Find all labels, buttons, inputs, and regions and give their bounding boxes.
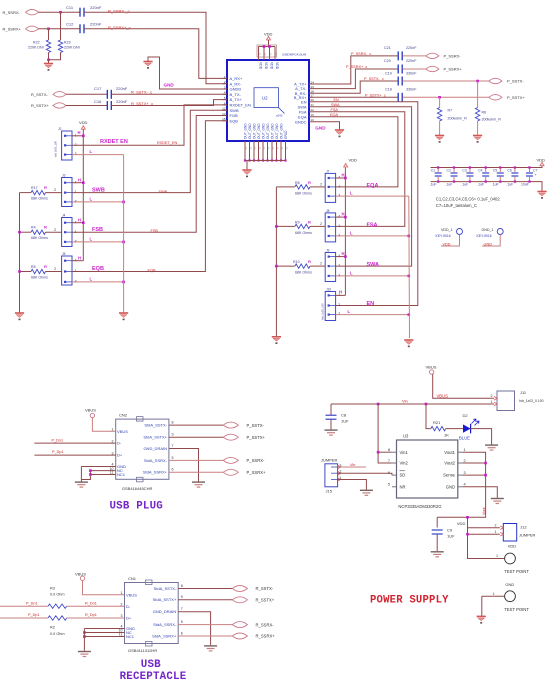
svg-text:C4: C4 (478, 169, 482, 173)
ground CN2 shell (75, 482, 88, 487)
svg-text:J9: J9 (326, 248, 330, 252)
J15 pin 1 (340, 476, 342, 480)
J2 pin 1 (64, 135, 66, 137)
svg-text:OUT_GND: OUT_GND (279, 123, 283, 139)
svg-text:H: H (339, 289, 342, 294)
wire J15 pin3 Vin stub (338, 466, 366, 468)
wire CN2 SSRX+ to port (169, 471, 224, 473)
svg-text:J7: J7 (326, 169, 330, 173)
net label SWB (magenta) (92, 187, 105, 193)
ground GND test point (477, 616, 486, 623)
node R6 tap (476, 80, 479, 83)
net label R_SSTX-_c (131, 90, 152, 95)
U2 pin 22 FSA (299, 109, 307, 114)
svg-text:TEST POINT: TEST POINT (504, 569, 529, 574)
wire J8 pin3 to right L rail (336, 235, 409, 237)
U2 part number label (282, 53, 307, 57)
svg-text:OUT_GND: OUT_GND (243, 123, 247, 139)
svg-text:220nF: 220nF (406, 59, 417, 63)
svg-text:VDD: VDD (443, 242, 451, 246)
J4 pin 4 (64, 222, 66, 224)
svg-text:22: 22 (276, 52, 278, 55)
CN2 pin 9 StdA_SSTX+ (143, 435, 167, 440)
svg-text:VDD: VDD (259, 62, 263, 70)
svg-text:RXDET_EN: RXDET_EN (157, 141, 178, 145)
port P_SSTX- (489, 78, 502, 83)
wire left L rail (123, 155, 125, 313)
connector J9 header body (325, 253, 335, 282)
connector J2 header body (62, 131, 72, 160)
wire VDD to J12 pins (468, 517, 505, 558)
op-amp U2 redriver IC body (227, 60, 309, 141)
svg-text:VDD: VDD (275, 62, 279, 70)
regulator U3 body (397, 440, 458, 498)
svg-text:U3: U3 (403, 434, 409, 439)
connector J15 jumper (321, 458, 338, 463)
net labels EN SWA FSA EQA at chip (334, 98, 340, 102)
svg-text:7: 7 (172, 444, 174, 448)
svg-text:GND: GND (164, 82, 175, 87)
svg-text:H: H (342, 173, 345, 178)
U2 pin 21 SWA (298, 104, 307, 109)
U2 pin 24 A_TX+ (294, 82, 307, 87)
connector J8 header body (325, 213, 335, 242)
wire J9 pin4 to VDD rail (336, 256, 346, 258)
svg-text:7: 7 (388, 459, 390, 463)
resistor R23 (60, 12, 62, 40)
net label EQB (magenta) (92, 266, 104, 272)
svg-text:J15: J15 (326, 489, 333, 494)
wire Vin to U3 Vin1/Vin2 (378, 404, 392, 463)
CN2 pin 1 VBUS (112, 428, 114, 432)
svg-text:R5: R5 (31, 265, 36, 269)
wire right L rail (408, 196, 411, 338)
wire R_SSTX+ to C16 (66, 105, 108, 107)
wire VBUS to CN1 pin1 (83, 581, 125, 595)
svg-text:P_SSTX+: P_SSTX+ (507, 95, 525, 100)
U3 pin 1 Vout1 (464, 448, 466, 452)
port P_SSRX+ (426, 66, 439, 71)
ground U3 (491, 499, 504, 504)
test point GND (505, 582, 514, 587)
U2 pin 3 GNDD (230, 87, 242, 92)
ground GNDD net (143, 62, 152, 69)
port P_SSTX+ plug (223, 434, 238, 440)
capacitor C18 (398, 93, 402, 102)
net label EN (magenta) (367, 301, 375, 307)
svg-text:GND_1: GND_1 (482, 228, 494, 232)
J3 pin 1 (64, 192, 66, 194)
svg-text:21: 21 (270, 52, 272, 55)
wire J2 pin3 to L rail (72, 154, 124, 156)
svg-text:StdA_SSRX+: StdA_SSRX+ (143, 470, 168, 475)
port R_SSRX+ (input) (3, 27, 22, 32)
J7 pin 4 (328, 177, 330, 179)
svg-text:USB PLUG: USB PLUG (110, 501, 163, 513)
svg-text:C18: C18 (385, 88, 392, 92)
svg-text:L: L (350, 271, 353, 276)
wire CN2 SSRX- to port (169, 459, 224, 461)
net label GND at GNDC (315, 125, 326, 130)
svg-text:USB3MPC410UM: USB3MPC410UM (282, 53, 307, 57)
svg-text:P_SSRX-: P_SSRX- (444, 53, 462, 58)
resistor R10 (320, 262, 322, 266)
ground at GNDC (335, 130, 344, 137)
CN1 pin 7 GND_DRAIN (153, 609, 177, 614)
svg-text:OUT_GND: OUT_GND (257, 123, 261, 139)
wire J5 pin4 to VDD rail (72, 260, 83, 262)
svg-text:L: L (350, 231, 353, 236)
svg-text:OUT_GND: OUT_GND (275, 123, 279, 139)
svg-text:GND_DRAIN: GND_DRAIN (153, 609, 177, 614)
svg-text:220nF: 220nF (90, 22, 102, 27)
svg-text:StdA_SSRX-: StdA_SSRX- (153, 622, 177, 627)
svg-text:R_SSTX-: R_SSTX- (256, 586, 274, 591)
CN1 pin 9 StdA_SSTX+ (153, 597, 177, 602)
capacitor C5 (499, 168, 501, 173)
U2 pin 18 B_RX- (295, 91, 307, 96)
svg-text:Vout1: Vout1 (444, 450, 455, 455)
CN1 pin 3 D+ (121, 614, 123, 618)
port P_SSTX- plug (223, 422, 238, 428)
svg-text:1: 1 (112, 428, 114, 432)
ground J15 (360, 490, 373, 495)
svg-text:2: 2 (491, 394, 493, 398)
power VBUS pin plug (85, 407, 96, 412)
svg-text:EPAD: EPAD (284, 130, 288, 139)
svg-text:GND: GND (446, 484, 455, 489)
wire Vout net (437, 452, 485, 517)
wire CN1 GND/NC to ground (84, 628, 124, 630)
svg-text:4: 4 (464, 483, 466, 487)
svg-text:Vin1: Vin1 (400, 450, 409, 455)
net label P_SSRX+_c (346, 65, 367, 69)
wire J9 pin3 to right L rail (336, 275, 409, 277)
wire J3 pin4 to VDD rail (72, 182, 83, 184)
svg-text:VBUS: VBUS (426, 364, 437, 369)
svg-text:6: 6 (172, 468, 174, 472)
wire J15 pin1 to ground (338, 480, 367, 490)
svg-text:R: R (308, 180, 311, 185)
svg-text:J4: J4 (62, 214, 66, 218)
svg-text:R_Dp1: R_Dp1 (85, 613, 97, 617)
connector J7 header body (325, 173, 335, 202)
wire J7 pin4 to VDD rail (336, 177, 346, 179)
svg-text:GSB4111312HR: GSB4111312HR (128, 648, 157, 653)
svg-text:1: 1 (121, 591, 123, 595)
svg-text:1: 1 (338, 185, 340, 189)
svg-text:hdr_1x02_0.100: hdr_1x02_0.100 (519, 399, 544, 403)
CN2 pin 11 NC1 (110, 471, 114, 475)
wire R_SSRX+_c net to chip A_RX+ (84, 29, 227, 79)
CN2 pin 8 StdA_SSTX- (144, 423, 167, 428)
ground cap bank (537, 192, 546, 199)
svg-text:VBUS: VBUS (117, 429, 128, 434)
port P_SSRX+ plug (223, 469, 238, 475)
wire cap bank top rail (431, 166, 543, 168)
port P_SSRX- (426, 53, 439, 58)
svg-text:StdA_SSTX-: StdA_SSTX- (144, 423, 167, 428)
svg-text:26: 26 (250, 146, 252, 149)
label L J7 (350, 191, 353, 196)
wire R_SSRX- to C11 (39, 11, 81, 13)
resistor R22 (48, 29, 50, 40)
svg-text:33: 33 (282, 146, 284, 149)
label H J7 (342, 173, 345, 178)
svg-text:C20: C20 (384, 59, 391, 63)
VDD power symbol above U2 (264, 31, 273, 36)
wire C20 to P_SSRX+ port (403, 68, 426, 70)
svg-text:200kohm_R: 200kohm_R (448, 116, 468, 120)
wire J2 pin1 to VDD rail (72, 135, 83, 137)
wire CN2 GND to ground (81, 466, 115, 468)
svg-text:R4: R4 (31, 226, 36, 230)
wire C18 to P_SSTX+ port (403, 96, 489, 98)
net label EQB (red) (148, 269, 156, 273)
CN1 pin 1 VBUS (121, 591, 123, 595)
net label R_SSRX-_c (108, 9, 130, 14)
svg-text:StdA_SSTX+: StdA_SSTX+ (153, 597, 177, 602)
connector J2 (RXDET_EN select) (58, 127, 62, 131)
wire J10 pin3 to right L rail (336, 314, 409, 316)
connector J4 (FSB select) (62, 214, 66, 218)
svg-text:.1uF: .1uF (446, 182, 453, 186)
svg-text:JUMPER: JUMPER (321, 458, 338, 463)
U3 pin 4 GND (464, 483, 466, 487)
svg-text:1: 1 (491, 400, 493, 404)
svg-text:U2: U2 (262, 96, 268, 101)
net label P_Dp1 plug (52, 450, 64, 454)
svg-text:68K Ohms: 68K Ohms (295, 231, 312, 235)
label L J2 (90, 149, 93, 154)
svg-text:NCP3335ADM330R2G: NCP3335ADM330R2G (398, 504, 441, 509)
J5 pin 1 (64, 270, 66, 272)
CN2 pin 4 GND (112, 463, 114, 467)
svg-text:20: 20 (265, 52, 267, 55)
svg-text:1UF: 1UF (341, 419, 349, 424)
svg-text:VDD: VDD (508, 544, 517, 549)
svg-text:Vout: Vout (482, 506, 486, 515)
CN1 pin 11 NC1 (119, 633, 123, 637)
net label P_SSRX-_c (351, 52, 371, 56)
svg-text:R_SSRX+_c: R_SSRX+_c (108, 25, 131, 30)
svg-text:P_Dp1: P_Dp1 (52, 450, 64, 454)
svg-text:GND_DRAIN: GND_DRAIN (143, 446, 167, 451)
svg-text:5: 5 (388, 483, 390, 487)
svg-text:L: L (90, 277, 93, 282)
svg-text:2: 2 (320, 183, 322, 187)
connector J5 (EQB select) (62, 252, 66, 256)
net label Vin rail (402, 398, 408, 403)
wire VDD rail right jumpers (344, 168, 346, 296)
svg-text:OUT_GND: OUT_GND (248, 123, 252, 139)
svg-text:CN1: CN1 (128, 576, 137, 581)
wire CN1 GND_DRAIN to ground (178, 612, 210, 646)
capacitor C2 (453, 168, 455, 173)
U3 pin 3 Sense (464, 471, 466, 475)
svg-text:USB: USB (141, 659, 161, 671)
CN2 pin 2 D- (112, 439, 114, 443)
svg-text:R7: R7 (448, 109, 453, 113)
svg-text:.1uF: .1uF (477, 182, 484, 186)
capacitor C20 (398, 65, 402, 74)
svg-text:220nF: 220nF (406, 46, 417, 50)
svg-text:GND: GND (484, 242, 493, 246)
connector J7 (EQA select) (326, 169, 330, 173)
svg-text:68K Ohms: 68K Ohms (295, 271, 312, 275)
svg-text:R3: R3 (50, 587, 55, 591)
svg-text:L: L (90, 197, 93, 202)
capacitor C6 (514, 168, 516, 173)
J15 pin 2 (340, 470, 342, 474)
U2 pin 4 B_TX- (230, 92, 242, 97)
svg-text:19: 19 (259, 52, 261, 55)
svg-text:TEST POINT: TEST POINT (504, 607, 529, 612)
svg-text:J10: J10 (326, 287, 331, 291)
svg-text:NC1: NC1 (126, 634, 135, 639)
port R_SSRX+ (232, 633, 247, 639)
connector CN1 USB receptacle body (125, 583, 179, 644)
wire VBUS to CN2 pin1 (92, 418, 115, 432)
svg-text:P_SSRX+: P_SSRX+ (444, 67, 463, 72)
CN1 pin 6 StdA_SSRX+ (152, 633, 177, 638)
ground right L rail (404, 340, 413, 347)
node junction R_SSRX- / R23 (59, 11, 62, 14)
svg-text:P_SSRX-: P_SSRX- (247, 458, 266, 463)
wire P_Dp1 to CN2 D+ (34, 454, 115, 456)
node R7 tap (438, 96, 441, 99)
svg-text:68K Ohms: 68K Ohms (31, 275, 48, 279)
svg-text:C16: C16 (94, 99, 102, 104)
U2 pin 2 A_RX- (230, 81, 242, 86)
svg-text:RXDET EN: RXDET EN (100, 139, 128, 145)
wire J4 pin3 to L rail (72, 241, 124, 243)
svg-text:R_SSTX+: R_SSTX+ (256, 598, 275, 603)
svg-text:VBUS: VBUS (75, 572, 86, 577)
wire J15 pin2 to U3 SD (338, 473, 392, 475)
svg-text:5: 5 (172, 456, 174, 460)
net label R_Dn1 (85, 601, 97, 605)
ground below R7 (435, 136, 444, 143)
connector J4 header body (62, 218, 72, 247)
svg-text:R_SSTX-_c: R_SSTX-_c (131, 90, 152, 95)
svg-text:J3: J3 (62, 174, 66, 178)
net label R_SSRX+_c (108, 25, 131, 30)
capacitor C1 (437, 168, 439, 173)
U2 VDD pins and labels (258, 47, 260, 61)
svg-text:VDD: VDD (79, 120, 88, 125)
resistor R7 (439, 97, 441, 107)
svg-text:C5: C5 (493, 169, 497, 173)
net label FSB (magenta) (92, 227, 103, 233)
svg-text:1K: 1K (444, 433, 449, 438)
svg-text:1: 1 (338, 264, 340, 268)
svg-text:StdA_SSTX+: StdA_SSTX+ (143, 435, 167, 440)
J8 pin 4 (328, 216, 330, 218)
svg-text:EN: EN (367, 301, 375, 307)
svg-text:OUT_GND: OUT_GND (270, 123, 274, 139)
svg-text:8: 8 (172, 421, 174, 425)
node VDD junction (466, 516, 469, 519)
U2 pin 23 A_TX- (295, 86, 307, 91)
port R_SSTX- (input) (31, 92, 49, 97)
svg-text:NC1: NC1 (117, 472, 126, 477)
svg-text:C3: C3 (462, 169, 466, 173)
svg-text:R23: R23 (64, 41, 71, 45)
wire R_SSTX- to C17 (66, 93, 108, 95)
wire SWA chip to J9 (314, 107, 412, 266)
svg-text:R_Dn1: R_Dn1 (85, 601, 97, 605)
svg-text:R: R (44, 264, 47, 269)
resistor R6 (477, 81, 479, 108)
svg-text:C7=10uF_tantalum_C: C7=10uF_tantalum_C (436, 203, 477, 208)
svg-text:.1uF: .1uF (461, 182, 468, 186)
wire CN2 SSTX+ to port (169, 436, 224, 438)
svg-text:9: 9 (181, 595, 183, 599)
svg-text:OUT_GND: OUT_GND (261, 123, 265, 139)
U3 part number (398, 504, 441, 509)
net label P_Dn1 plug (52, 439, 64, 443)
capacitor C12 (80, 24, 84, 33)
capacitor C11 (80, 8, 84, 17)
resistor R2 (48, 616, 67, 620)
svg-text:R: R (308, 220, 311, 225)
svg-text:R_SSRX-: R_SSRX- (256, 622, 275, 627)
CN2 pin 7 GND_DRAIN (143, 446, 167, 451)
resistor R21 (426, 404, 431, 429)
svg-text:.1uF: .1uF (430, 182, 437, 186)
svg-text:H: H (78, 256, 81, 261)
wire J8 pin4 to VDD rail (336, 216, 346, 218)
wire R_SSTX+_c to chip B_TX+ (111, 100, 227, 106)
title POWER SUPPLY (370, 595, 449, 607)
label H J8 (342, 212, 345, 217)
ground CN1 shell (78, 652, 91, 657)
net label SWB (red) (159, 190, 168, 194)
svg-text:VBUS: VBUS (437, 394, 449, 399)
U3 pin 2 Vout2 (464, 459, 466, 463)
svg-text:SD: SD (400, 473, 406, 478)
svg-text:VDD: VDD (264, 62, 268, 70)
ground below R22/R23 (48, 60, 50, 64)
svg-text:10uF: 10uF (521, 182, 529, 186)
svg-text:GND: GND (505, 582, 514, 587)
svg-text:220nF: 220nF (116, 99, 128, 104)
svg-text:R_SSRX-_c: R_SSRX-_c (108, 9, 130, 14)
note capacitor values (436, 197, 501, 202)
svg-text:1: 1 (464, 448, 466, 452)
CN1 pin 8 StdA_SSTX- (154, 586, 177, 591)
svg-text:J12: J12 (520, 525, 527, 530)
svg-text:H: H (78, 130, 81, 135)
svg-text:1: 1 (496, 554, 498, 558)
svg-text:P_SSRX+: P_SSRX+ (247, 470, 267, 475)
resistor R8 (320, 183, 322, 187)
capacitor C17 (107, 90, 111, 99)
CN1 pin 2 D- (121, 602, 123, 606)
svg-text:68K Ohms: 68K Ohms (295, 191, 312, 195)
J7 pin 3 (328, 195, 330, 197)
svg-text:R_SSRX+: R_SSRX+ (256, 634, 276, 639)
svg-text:BLUE: BLUE (459, 436, 470, 441)
connector J8 (FSA select) (326, 209, 330, 213)
svg-text:P_SSTX-: P_SSTX- (507, 79, 524, 84)
svg-text:C6: C6 (507, 169, 511, 173)
wire J2 pin2 RXDET_EN to chip (72, 105, 227, 145)
svg-text:R_SSRX+: R_SSRX+ (3, 27, 22, 32)
wire J10 pin1 to VDD rail (336, 294, 346, 296)
svg-text:P_Dn1: P_Dn1 (26, 601, 38, 605)
